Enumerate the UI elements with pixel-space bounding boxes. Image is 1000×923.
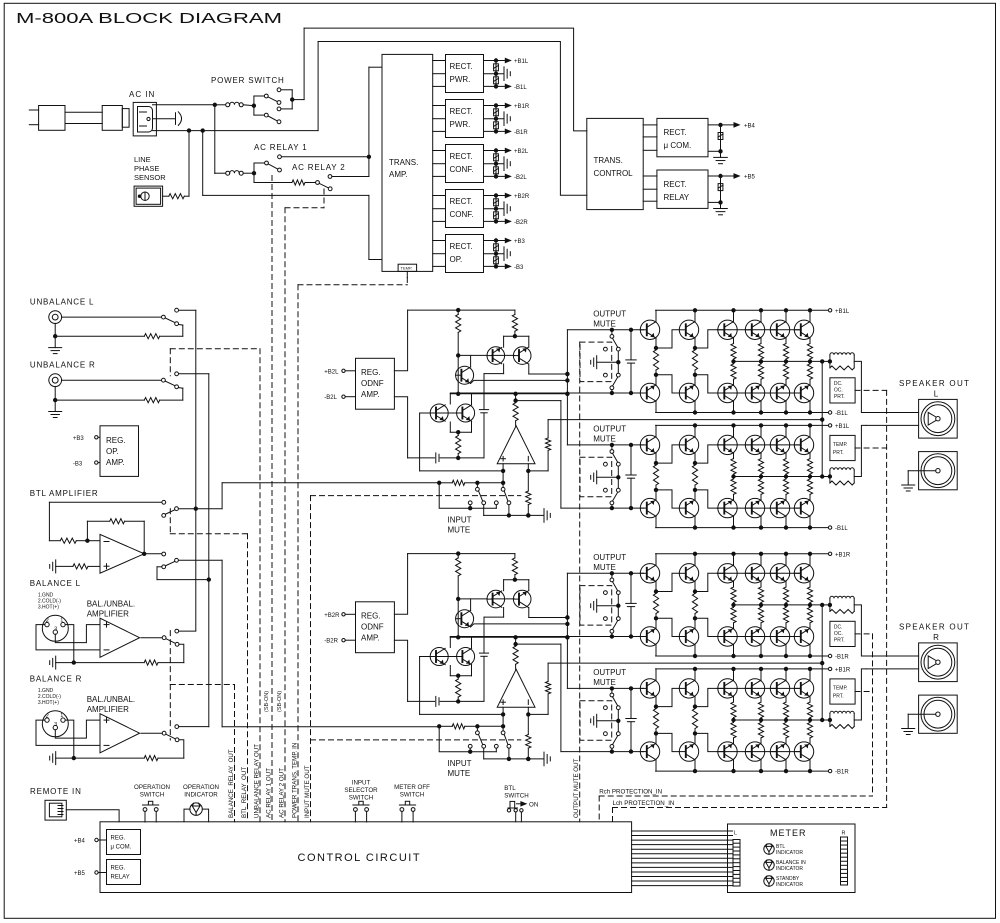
- svg-text:OP.: OP.: [450, 255, 463, 264]
- resistor emitter column 3 upper: [731, 453, 736, 476]
- svg-text:1: 1: [60, 713, 63, 719]
- transistor output column 1 lower: [655, 516, 657, 527]
- svg-text:3.HOT(+): 3.HOT(+): [38, 605, 59, 611]
- svg-text:SWITCH: SWITCH: [400, 792, 424, 799]
- output -B3: [484, 264, 525, 271]
- wire op-amp output to bridge: [516, 400, 561, 402]
- svg-text:MUTE: MUTE: [448, 769, 471, 778]
- resistor BTL input: [49, 538, 100, 543]
- AC cord: [65, 112, 102, 123]
- meter off switch: [400, 808, 404, 812]
- svg-text:1: 1: [60, 618, 63, 624]
- UNBALANCE R RCA jack: [49, 374, 62, 387]
- output mute relay box dashed: [580, 586, 612, 626]
- temp protection block: [830, 435, 855, 460]
- op-amp BTL: [100, 534, 144, 573]
- wire reg odnf to rails: [394, 554, 407, 702]
- svg-text:AMPLIFIER: AMPLIFIER: [87, 705, 129, 714]
- svg-text:L: L: [734, 831, 737, 837]
- output +B2R: [484, 193, 530, 200]
- svg-text:MUTE: MUTE: [448, 525, 471, 534]
- BALANCE L XLR connector: [42, 615, 68, 641]
- capacitor output mute: [626, 330, 636, 393]
- output +B2L: [484, 148, 529, 155]
- wire driver: [457, 355, 568, 395]
- transistor output column 4 lower: [760, 645, 762, 656]
- wire BALANCE L hot pin3: [55, 625, 100, 643]
- svg-text:CONF.: CONF.: [450, 210, 474, 219]
- output mute switch: [604, 573, 621, 636]
- svg-text:TEMP.: TEMP.: [833, 442, 848, 448]
- transistor pair A: [430, 404, 448, 422]
- transistor mirror B: [513, 590, 531, 608]
- bus unbalance L: [195, 310, 197, 630]
- output mute relay box dashed: [580, 457, 612, 497]
- svg-text:R: R: [933, 633, 939, 642]
- resistor output filter: [830, 481, 854, 485]
- transistor output column 2 lower: [694, 645, 696, 656]
- wire UNBALANCE L signal: [62, 316, 162, 318]
- fuse F1: [215, 102, 243, 107]
- wire input line: [438, 480, 504, 485]
- switch UNBALANCE L: [162, 308, 179, 325]
- svg-text:METER OFF: METER OFF: [394, 784, 430, 791]
- output mute relay box dashed: [580, 342, 612, 382]
- resistor emitter column 5 upper: [783, 453, 788, 476]
- wire input line: [438, 724, 504, 729]
- rect CONF. block (+B2R/-B2R): [446, 190, 484, 228]
- svg-text:LINE: LINE: [134, 155, 151, 164]
- svg-text:SWITCH: SWITCH: [349, 795, 373, 802]
- node live junction: [213, 103, 216, 106]
- svg-text:μ COM.: μ COM.: [111, 845, 132, 851]
- wire output bases upper: [717, 329, 801, 331]
- capacitor +B5: [718, 176, 723, 202]
- svg-text:3.HOT(+): 3.HOT(+): [38, 700, 59, 706]
- svg-text:μ COM.: μ COM.: [664, 141, 692, 150]
- capacitor -B1L rail: [494, 74, 499, 87]
- svg-text:CONF.: CONF.: [450, 165, 474, 174]
- wire output bases lower: [717, 636, 801, 638]
- transistor output column 6 upper: [809, 669, 811, 680]
- wire output bases upper: [717, 572, 801, 574]
- pins trans amp to rect +B1L: [433, 61, 446, 87]
- wire sense vertical: [821, 361, 823, 476]
- wire sense line: [548, 661, 824, 664]
- wire pair base: [420, 412, 457, 414]
- svg-text:-B1L: -B1L: [835, 526, 848, 532]
- transistor output column 5 upper: [785, 310, 787, 321]
- svg-text:-B2R: -B2R: [324, 639, 338, 645]
- resistor emitter column 5 lower: [783, 361, 788, 384]
- transistor output column 5 lower: [785, 645, 787, 656]
- svg-text:-B1L: -B1L: [514, 85, 527, 91]
- wire mirror base: [458, 598, 487, 600]
- output mute switch: [604, 330, 621, 393]
- svg-text:ODNF: ODNF: [361, 379, 384, 388]
- svg-text:3: 3: [54, 722, 57, 728]
- switch BALANCE L output: [141, 629, 179, 646]
- capacitor output mute: [626, 573, 636, 636]
- svg-text:OUTPUT MUTE OUT: OUTPUT MUTE OUT: [573, 758, 580, 818]
- resistor emitter column 3 lower: [731, 720, 736, 743]
- svg-text:ODNF: ODNF: [361, 623, 384, 632]
- wire sense line: [548, 418, 824, 421]
- svg-text:AC RELAY 1: AC RELAY 1: [254, 143, 308, 152]
- BALANCE IN indicator: [764, 860, 806, 872]
- pins trans amp to rect +B2L: [433, 151, 446, 177]
- ground BALANCE L: [50, 656, 76, 669]
- resistor UNBALANCE R mute: [55, 388, 183, 403]
- pins trans amp to rect +B1R: [433, 106, 446, 132]
- bus unbalance R: [208, 374, 210, 727]
- trans amp block: [382, 54, 433, 271]
- wire output to speaker line: [854, 669, 866, 720]
- capacitor -B2L rail: [494, 164, 499, 177]
- transistor output column 4 lower: [760, 760, 762, 771]
- svg-text:BTL AMPLIFIER: BTL AMPLIFIER: [30, 489, 99, 498]
- wire BTL output: [143, 552, 162, 555]
- AC relay 2 switch: [316, 175, 333, 191]
- dashed link BTL relay: [170, 509, 247, 534]
- temp protection block: [830, 679, 855, 704]
- svg-text:UNBALANCE L: UNBALANCE L: [30, 298, 94, 307]
- remote in connector: [45, 800, 66, 820]
- svg-text:+B2L: +B2L: [514, 149, 529, 155]
- svg-text:AMPLIFIER: AMPLIFIER: [87, 610, 129, 619]
- svg-text:AC RELAY 2: AC RELAY 2: [292, 163, 346, 172]
- wire input mute bypass: [439, 483, 496, 510]
- pins trans control to rect relay: [643, 176, 657, 201]
- svg-text:PWR.: PWR.: [450, 75, 471, 84]
- wire BALANCE R hot pin3: [55, 720, 100, 738]
- reg odnf amp block (+B2R): [356, 602, 395, 653]
- wire BTL switch to input mute L: [178, 483, 439, 511]
- svg-text:RECT.: RECT.: [450, 107, 473, 116]
- svg-text:REMOTE IN: REMOTE IN: [30, 787, 82, 796]
- svg-text:TEMP.: TEMP.: [401, 266, 413, 271]
- wire speaker + line: [866, 655, 919, 657]
- pins trans control to rect u com: [643, 125, 657, 150]
- wire op-amp output to bridge: [516, 643, 561, 645]
- reg op amp block: [100, 426, 139, 477]
- transistor output column 2 upper: [694, 554, 696, 565]
- wire balance R throw to bus2: [179, 726, 209, 728]
- svg-text:POWER TRANS. TEMP. IN: POWER TRANS. TEMP. IN: [292, 743, 299, 818]
- svg-text:INDICATOR: INDICATOR: [184, 792, 218, 799]
- line phase sensor: [134, 186, 163, 206]
- ground rect PWR.: [484, 112, 511, 126]
- meter block: [728, 824, 856, 893]
- svg-text:OUTPUT: OUTPUT: [593, 309, 626, 318]
- capacitor -B2R rail: [494, 209, 499, 222]
- resistor emitter column 3 lower: [731, 361, 736, 384]
- wire driver darlington upper: [654, 573, 717, 593]
- resistor driver column 2: [692, 453, 697, 500]
- svg-text:POWER SWITCH: POWER SWITCH: [211, 76, 285, 85]
- wire BALANCE R switch throw: [179, 740, 184, 758]
- svg-text:-B2L: -B2L: [324, 395, 337, 401]
- rail -B1R: [656, 654, 850, 660]
- wire bridge drive vertical: [566, 330, 569, 445]
- resistor driver column 2: [692, 338, 697, 385]
- wire mirror base: [458, 354, 487, 356]
- capacitor +B2L rail: [494, 151, 499, 164]
- transistor output column 3 upper: [733, 310, 735, 321]
- transistor output column 2 upper: [694, 669, 696, 680]
- dc protection block: [830, 621, 855, 646]
- dashed line BALANCE RELAY OUT: [234, 685, 236, 822]
- resistor emitter column 6 lower: [807, 361, 812, 384]
- AC IN inlet: [129, 90, 156, 136]
- wire driver darlington lower: [654, 732, 717, 752]
- capacitor output mute: [626, 445, 636, 508]
- control circuit block: [100, 822, 632, 893]
- wire UNBALANCE R signal: [62, 379, 162, 381]
- OUTPUT MUTE label: [593, 553, 626, 572]
- svg-text:INDICATOR: INDICATOR: [776, 850, 803, 856]
- wire mirror A emitter to capacitor: [484, 364, 504, 409]
- svg-text:R: R: [842, 831, 846, 837]
- transistor driver: [456, 366, 474, 384]
- svg-text:-B1L: -B1L: [835, 411, 848, 417]
- node AC relay feed: [214, 105, 216, 174]
- svg-text:+B1L: +B1L: [835, 424, 850, 430]
- svg-text:-B1R: -B1R: [835, 655, 849, 661]
- resistor emitter column 6 upper: [807, 338, 812, 361]
- capacitor +B4: [718, 125, 723, 151]
- wire input mute to ground: [484, 748, 551, 766]
- wire op-amp + input: [501, 464, 504, 490]
- METER OFF SWITCH label: [394, 784, 430, 799]
- inductor output filter: [830, 468, 854, 483]
- wire AC relay 1 to trans amp: [281, 155, 370, 158]
- ground UNBALANCE R: [49, 386, 62, 417]
- input mute switch A: [468, 483, 485, 505]
- output mute switch: [604, 445, 621, 508]
- svg-text:+B5: +B5: [74, 871, 86, 877]
- wire fuse to power switch pole: [243, 104, 254, 107]
- wire BALANCE L cold pin2: [36, 625, 100, 650]
- resistor op-amp top: [513, 394, 518, 426]
- wire drive upper: [529, 616, 569, 619]
- resistor emitter column 4 lower: [758, 477, 763, 500]
- ground rect CONF.: [484, 157, 511, 171]
- switch UNBALANCE R: [162, 372, 179, 389]
- wire speaker + line: [866, 412, 919, 414]
- op-amp BALANCE R: [100, 714, 140, 753]
- svg-text:OUTPUT: OUTPUT: [593, 668, 626, 677]
- svg-text:AC IN: AC IN: [129, 90, 155, 99]
- rail +B1R: [656, 552, 851, 558]
- wire AC relay 2 to trans amp: [332, 67, 382, 176]
- ground output mute: [591, 714, 619, 727]
- speaker connector L plus: [919, 399, 958, 438]
- ground speaker return: [902, 714, 936, 734]
- svg-text:BALANCE_RELAY_OUT: BALANCE_RELAY_OUT: [228, 749, 235, 818]
- wire bridge drive vertical 2: [560, 401, 562, 509]
- output +B1R: [484, 103, 530, 110]
- wire drive top: [567, 687, 643, 690]
- SPEAKER OUT L label: [899, 379, 970, 399]
- transistor output column 6 upper: [809, 425, 811, 436]
- top bus 2 to trans control: [318, 42, 587, 196]
- wire output bases lower: [717, 507, 801, 509]
- pins trans amp to rect +B2R: [433, 196, 446, 222]
- rect CONF. block (+B2L/-B2L): [446, 145, 484, 183]
- svg-text:OPERATION: OPERATION: [134, 784, 170, 791]
- svg-text:CONTROL: CONTROL: [594, 169, 634, 178]
- resistor emitter column 3 upper: [731, 697, 736, 720]
- svg-text:2: 2: [46, 714, 49, 720]
- transistor output column 5 lower: [785, 760, 787, 771]
- output mute relay box dashed: [580, 701, 612, 741]
- svg-text:OC.: OC.: [834, 387, 843, 393]
- BAL./UNBAL. AMPLIFIER label: [87, 695, 135, 714]
- svg-text:REG.: REG.: [111, 836, 126, 842]
- wire output bases upper: [717, 444, 801, 446]
- resistor emitter column 5 upper: [783, 582, 788, 605]
- wire drive top: [567, 572, 643, 575]
- resistor front end 3: [456, 432, 461, 459]
- resistor driver column 1: [653, 338, 658, 385]
- inductor output filter: [830, 353, 854, 368]
- svg-text:+B3: +B3: [73, 436, 85, 442]
- resistor emitter column 4 lower: [758, 605, 763, 628]
- wire op-amp + feed: [420, 413, 505, 473]
- BTL indicator: [764, 844, 804, 856]
- wire pair base: [420, 656, 457, 658]
- wire drive lower: [450, 636, 569, 639]
- rail -B1L: [656, 526, 849, 532]
- svg-text:INDICATOR: INDICATOR: [776, 882, 803, 888]
- transistor output column 5 lower: [785, 516, 787, 527]
- transistor output column 1 lower: [655, 760, 657, 771]
- wire driver darlington upper: [654, 445, 717, 465]
- transistor output column 2 lower: [694, 401, 696, 412]
- resistor driver column 2: [692, 697, 697, 744]
- wire drive upper: [529, 372, 569, 375]
- svg-text:-B1R: -B1R: [835, 770, 849, 776]
- resistor emitter column 3 upper: [731, 582, 736, 605]
- input mute switch A: [468, 726, 485, 748]
- svg-text:OC.: OC.: [834, 631, 843, 637]
- capacitor -B3 rail: [494, 254, 499, 267]
- AC plug: [29, 106, 65, 131]
- wire BTL lower switch to input mute R: [178, 560, 439, 726]
- resistor emitter column 4 upper: [758, 582, 763, 605]
- resistor emitter column 4 lower: [758, 720, 763, 743]
- transistor output column 1 upper: [655, 310, 657, 321]
- transistor output column 5 upper: [785, 425, 787, 436]
- resistor front end 3: [456, 676, 461, 703]
- pin +B2R: [324, 613, 355, 619]
- wire bridge drive vertical: [566, 573, 569, 688]
- svg-text:OPERATION: OPERATION: [183, 784, 219, 791]
- operation indicator lamp: [184, 803, 209, 822]
- transistor mirror A: [487, 347, 505, 365]
- wire BTL input: [49, 502, 161, 540]
- speaker connector R return: [919, 695, 958, 733]
- svg-text:REG.: REG.: [361, 368, 381, 377]
- wire mirror A emitter to capacitor: [484, 608, 504, 653]
- inductor output filter: [830, 596, 854, 611]
- wire reg odnf to rails: [394, 310, 407, 458]
- output +B5: [708, 174, 756, 181]
- wire sensor to AC neutral: [188, 131, 190, 197]
- wire driver darlington lower: [654, 373, 717, 393]
- svg-text:PRT.: PRT.: [833, 693, 844, 699]
- capacitor +B2R rail: [494, 196, 499, 209]
- ground UNBALANCE L: [49, 323, 62, 353]
- svg-text:SPEAKER OUT: SPEAKER OUT: [899, 379, 970, 388]
- wire op-amp - input: [527, 464, 549, 491]
- transistor output column 1 lower: [655, 401, 657, 412]
- ground BALANCE R: [50, 752, 76, 765]
- resistor emitter column 3 upper: [731, 338, 736, 361]
- transistor output column 3 lower: [733, 516, 735, 527]
- transistor output column 6 lower: [809, 401, 811, 412]
- wire BALANCE L switch throw: [179, 644, 184, 662]
- wire speaker - line: [866, 668, 919, 670]
- svg-text:(SB-ON): (SB-ON): [264, 691, 270, 712]
- wire AC live to power switch: [153, 104, 215, 106]
- ground rect OP.: [484, 247, 511, 261]
- wire output bases upper: [717, 687, 801, 689]
- ground output mute: [591, 599, 619, 612]
- svg-text:SELECTOR: SELECTOR: [344, 787, 378, 794]
- resistor BALANCE R feedback: [74, 756, 184, 761]
- output mid rail: [732, 360, 832, 363]
- svg-text:OUTPUT: OUTPUT: [593, 424, 626, 433]
- resistor UNBALANCE L mute: [55, 325, 183, 339]
- transistor output column 6 lower: [809, 760, 811, 771]
- output -B1L: [484, 84, 528, 91]
- transistor output column 1 upper: [655, 554, 657, 565]
- btl switch: [507, 801, 538, 822]
- wire mirror loop: [492, 580, 529, 599]
- svg-text:+B1R: +B1R: [514, 104, 530, 110]
- svg-text:RECT.: RECT.: [664, 128, 687, 137]
- rail +B1R: [656, 667, 851, 673]
- rect u com block: [657, 118, 708, 156]
- BAL./UNBAL. AMPLIFIER label: [87, 600, 135, 619]
- input mute switch B: [494, 731, 510, 748]
- SPEAKER OUT R label: [899, 623, 970, 643]
- svg-text:MUTE: MUTE: [593, 563, 616, 572]
- resistor op-amp - to ground: [526, 491, 531, 517]
- wire mirror loop: [492, 336, 529, 355]
- resistor emitter column 4 upper: [758, 453, 763, 476]
- UNBALANCE L RCA jack: [49, 311, 62, 324]
- wire output bases lower: [717, 751, 801, 753]
- svg-text:UNBALANCE R: UNBALANCE R: [30, 361, 96, 370]
- svg-text:UNBALANCE RELAY OUT: UNBALANCE RELAY OUT: [254, 744, 261, 818]
- svg-text:SPEAKER OUT: SPEAKER OUT: [899, 623, 970, 632]
- dc protection block: [830, 378, 855, 403]
- wire driver: [457, 599, 568, 639]
- ground output mute: [591, 471, 619, 484]
- capacitor front end: [479, 653, 488, 701]
- transistor output column 6 upper: [809, 554, 811, 565]
- resistor emitter column 4 upper: [758, 697, 763, 720]
- wire output bases lower: [717, 392, 801, 394]
- resistor emitter column 5 upper: [783, 697, 788, 720]
- meter ribbon cable: [632, 831, 733, 886]
- wire output to speaker line: [854, 361, 866, 412]
- svg-text:REG.: REG.: [111, 866, 126, 872]
- svg-text:REG.: REG.: [106, 436, 126, 445]
